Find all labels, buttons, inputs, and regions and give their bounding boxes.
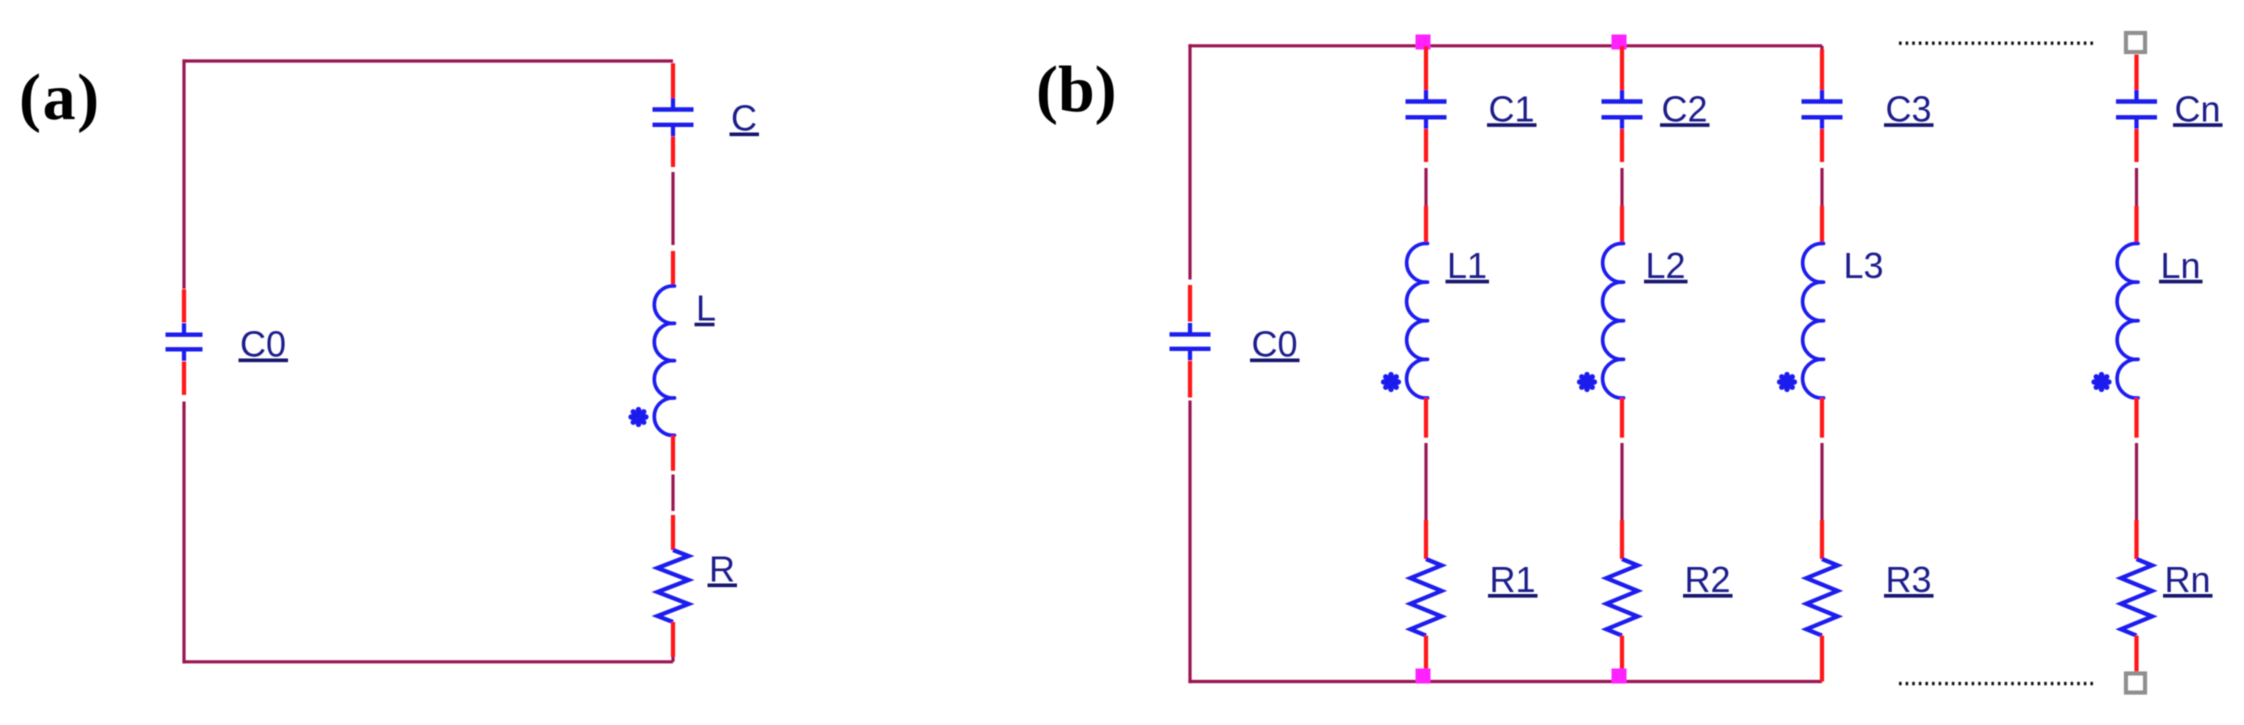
junction dot bottom R2: [1612, 669, 1627, 684]
wire Cn-Ln red2: [2134, 206, 2138, 244]
inductor L pin-1 marker: [631, 410, 646, 425]
capacitor C0b pin bottom (red): [1188, 361, 1192, 398]
junction dot top C2: [1612, 35, 1627, 50]
svg-text:C2: C2: [1662, 88, 1708, 129]
wire C to L red: [671, 137, 675, 168]
wire C1-L1 red: [1424, 129, 1428, 162]
wire L3-R3 maroon: [1820, 443, 1823, 520]
wire C2-L2 red2: [1620, 206, 1624, 244]
capacitor C pin top (red): [671, 63, 675, 98]
inductor Ln: [2117, 243, 2138, 398]
inductor L3 pin-1 marker: [1780, 375, 1795, 390]
resistor R pin bottom (red): [671, 622, 675, 657]
inductor Ln pin-1 marker: [2094, 375, 2109, 390]
junction dot top C1: [1416, 35, 1431, 50]
capacitor C2: [1602, 90, 1643, 129]
capacitor C0: [166, 323, 203, 361]
capacitor C3: [1802, 90, 1843, 129]
wire top (b): [1188, 44, 1822, 47]
wire left lower (a): [182, 402, 185, 664]
wire Ln-Rn red: [2134, 398, 2138, 438]
inductor L2 pin-1 marker: [1580, 375, 1595, 390]
wire L2-R2 red2: [1620, 520, 1624, 559]
wire C1-L1 red2: [1424, 206, 1428, 244]
capacitor C0 pin bottom (red): [182, 362, 186, 395]
terminal square bottom: [2126, 674, 2145, 693]
wire C to L red 2: [671, 251, 675, 286]
svg-text:L: L: [696, 288, 716, 329]
wire L to R maroon: [671, 475, 674, 512]
pin R2 bottom red: [1620, 636, 1624, 677]
pin C3 top red: [1820, 50, 1824, 91]
pin R1 bottom red: [1424, 636, 1428, 677]
wire L1-R1 maroon: [1424, 443, 1427, 520]
pin C1 top red: [1424, 46, 1428, 91]
svg-text:C3: C3: [1886, 88, 1932, 129]
inductor L1 pin-1 marker: [1384, 375, 1399, 390]
wire left lower (b): [1188, 401, 1191, 684]
wire top (a): [183, 59, 674, 62]
wire corner bottom-right (a): [671, 657, 674, 662]
wire Ln-Rn red2: [2134, 520, 2138, 559]
wire C3-L3 maroon: [1820, 168, 1823, 206]
pin C2 top red: [1620, 46, 1624, 91]
wire Ln-Rn maroon: [2135, 443, 2138, 520]
wire L1-R1 red2: [1424, 520, 1428, 559]
resistor R: [657, 550, 688, 622]
resistor Rn: [2121, 559, 2152, 636]
capacitor C1: [1406, 90, 1447, 129]
wire left upper (b): [1188, 44, 1191, 279]
wire L to R red 2: [671, 515, 675, 550]
wire bottom (a): [183, 660, 674, 663]
svg-text:(a): (a): [19, 61, 101, 134]
svg-text:R2: R2: [1685, 559, 1731, 600]
pin Cn top red: [2134, 55, 2138, 91]
resistor R2: [1606, 559, 1637, 636]
wire bottom (b): [1188, 680, 1822, 683]
svg-text:C: C: [731, 98, 757, 139]
capacitor Cn: [2116, 90, 2157, 129]
wire Cn-Ln maroon: [2135, 168, 2138, 206]
resistor R3: [1806, 559, 1837, 636]
wire corner top-right (b): [1820, 46, 1823, 50]
svg-text:L2: L2: [1646, 245, 1686, 286]
capacitor C0 (b): [1170, 323, 1211, 360]
svg-text:Ln: Ln: [2161, 245, 2201, 286]
svg-text:C0: C0: [240, 324, 286, 365]
wire L2-R2 red: [1620, 398, 1624, 438]
svg-text:Rn: Rn: [2165, 559, 2211, 600]
wire L2-R2 maroon: [1620, 443, 1623, 520]
svg-text:Cn: Cn: [2175, 88, 2221, 129]
dotted line bottom: [1899, 682, 2097, 685]
resistor R1: [1410, 559, 1441, 636]
dotted line top: [1899, 42, 2097, 45]
wire C to L maroon: [671, 172, 674, 245]
svg-text:R3: R3: [1886, 559, 1932, 600]
svg-text:(b): (b): [1036, 53, 1117, 126]
inductor L: [654, 286, 674, 435]
wire C3-L3 red: [1820, 129, 1824, 162]
pin Rn bottom red: [2134, 636, 2138, 674]
wire C2-L2 red: [1620, 129, 1624, 162]
pin R3 bottom red: [1820, 636, 1824, 682]
capacitor C0b pin top (red): [1188, 285, 1192, 322]
wire C2-L2 maroon: [1620, 168, 1623, 206]
svg-text:R: R: [709, 549, 735, 590]
wire L3-R3 red: [1820, 398, 1824, 438]
junction dot bottom R1: [1416, 669, 1431, 684]
inductor L2: [1603, 243, 1624, 398]
wire C1-L1 maroon: [1424, 168, 1427, 206]
svg-text:L1: L1: [1447, 245, 1487, 286]
inductor L3: [1803, 243, 1824, 398]
wire left upper (a): [182, 59, 185, 288]
svg-text:L3: L3: [1844, 245, 1884, 286]
svg-text:C1: C1: [1489, 88, 1535, 129]
wire L to R red: [671, 435, 675, 470]
svg-text:C0: C0: [1252, 324, 1298, 365]
svg-text:R1: R1: [1490, 559, 1536, 600]
wire C3-L3 red2: [1820, 206, 1824, 244]
inductor L1: [1407, 243, 1428, 398]
capacitor C0 pin top (red): [182, 289, 186, 322]
terminal square top: [2126, 33, 2145, 52]
wire Cn-Ln red: [2134, 129, 2138, 162]
wire L1-R1 red: [1424, 398, 1428, 438]
capacitor C: [653, 98, 694, 136]
wire L3-R3 red2: [1820, 520, 1824, 559]
